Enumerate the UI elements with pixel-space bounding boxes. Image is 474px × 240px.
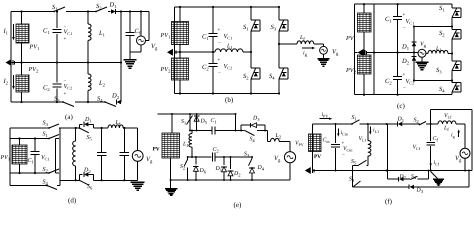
svg-text:S1: S1 <box>352 115 358 121</box>
svg-text:S1: S1 <box>181 119 187 125</box>
svg-text:−: − <box>64 26 67 31</box>
svg-text:PV: PV <box>314 154 321 160</box>
svg-text:−: − <box>342 154 345 159</box>
svg-text:D1: D1 <box>215 166 223 172</box>
svg-text:S6: S6 <box>87 184 93 190</box>
svg-text:S5: S5 <box>351 159 357 165</box>
svg-text:VC1: VC1 <box>41 155 50 161</box>
svg-text:S3: S3 <box>244 152 250 158</box>
svg-text:S5: S5 <box>87 135 93 141</box>
svg-text:+: + <box>218 28 221 33</box>
svg-text:L1: L1 <box>226 44 233 50</box>
svg-text:VLf: VLf <box>444 113 452 119</box>
svg-text:D1: D1 <box>84 117 92 123</box>
svg-text:S3: S3 <box>43 121 49 127</box>
svg-text:iPV: iPV <box>322 112 329 118</box>
svg-text:L1: L1 <box>182 142 189 148</box>
svg-text:Lf: Lf <box>115 120 121 126</box>
svg-text:D2: D2 <box>399 174 407 180</box>
svg-text:−: − <box>403 26 406 31</box>
svg-text:C1: C1 <box>211 118 218 124</box>
svg-text:S4: S4 <box>411 174 417 180</box>
svg-text:D3: D3 <box>416 188 424 194</box>
svg-text:C2: C2 <box>213 147 220 153</box>
svg-text:−: − <box>218 42 221 47</box>
svg-text:C1: C1 <box>28 158 35 164</box>
svg-text:(b): (b) <box>225 96 234 104</box>
svg-text:(c): (c) <box>397 102 405 110</box>
svg-text:ig: ig <box>451 133 455 139</box>
svg-text:VCin: VCin <box>343 146 352 152</box>
svg-text:−: − <box>64 79 67 84</box>
svg-text:(d): (d) <box>68 197 77 205</box>
svg-text:L1: L1 <box>435 46 442 52</box>
svg-text:iCin: iCin <box>341 130 348 136</box>
svg-text:PV1: PV1 <box>0 155 11 161</box>
svg-text:D1: D1 <box>397 117 405 123</box>
svg-text:VL1: VL1 <box>359 136 367 142</box>
svg-text:D3: D3 <box>252 116 260 122</box>
svg-text:Vg: Vg <box>420 42 427 48</box>
svg-text:+: + <box>218 58 221 63</box>
svg-text:−: − <box>403 86 406 91</box>
svg-text:Cf: Cf <box>433 136 439 142</box>
svg-text:D2: D2 <box>83 168 91 174</box>
svg-text:VCf: VCf <box>413 145 421 151</box>
svg-text:VPV: VPV <box>295 141 304 147</box>
svg-text:S2: S2 <box>414 118 420 124</box>
svg-text:+: + <box>64 92 67 97</box>
svg-text:D2: D2 <box>233 171 241 177</box>
svg-text:Lf: Lf <box>299 35 305 41</box>
svg-text:S4: S4 <box>250 137 256 143</box>
svg-text:S3: S3 <box>349 177 355 183</box>
svg-text:PV: PV <box>153 147 160 153</box>
svg-text:Cin: Cin <box>323 138 330 144</box>
svg-text:−: − <box>218 72 221 77</box>
svg-text:S2: S2 <box>43 167 49 173</box>
svg-text:+: + <box>64 37 67 42</box>
svg-text:D5: D5 <box>200 119 208 125</box>
svg-text:L2: L2 <box>275 133 282 139</box>
svg-text:iL1: iL1 <box>373 128 379 134</box>
svg-text:(e): (e) <box>234 201 242 209</box>
svg-text:S4: S4 <box>43 180 49 186</box>
svg-text:D6: D6 <box>199 168 207 174</box>
svg-text:S2: S2 <box>180 164 186 170</box>
svg-text:D4: D4 <box>257 165 265 171</box>
svg-text:Lf: Lf <box>443 126 449 132</box>
svg-text:iCf: iCf <box>434 160 440 166</box>
svg-text:(a): (a) <box>65 113 73 121</box>
svg-text:S1: S1 <box>43 132 49 138</box>
svg-text:(f): (f) <box>385 198 393 206</box>
